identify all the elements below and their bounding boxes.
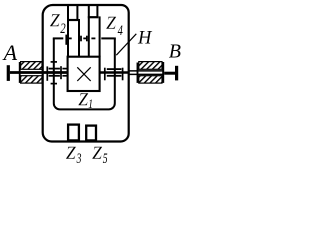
shaft B stub [164,72,175,75]
svg-text:z: z [105,5,117,35]
motor cross diagonal 1 [77,67,90,81]
gear z4 left support line [88,5,90,57]
gear z2 rectangle right edge [76,5,78,20]
left bearing lower hatched block [21,76,42,83]
left coupling bar 2 [60,66,62,79]
shaft A line [10,71,68,74]
hollow shaft lower line [129,73,164,75]
svg-text:z: z [91,135,103,165]
shaft B end bar [175,66,178,81]
svg-text:1: 1 [88,98,93,112]
central motor box [68,57,100,91]
svg-text:2: 2 [60,21,66,37]
gear z2 mesh line down to motor box [78,19,80,57]
short mesh bar left of z4 [86,36,88,42]
gear z2 bottom bar [67,19,78,21]
short mesh bar right of z2 [80,36,82,42]
fixed gear z5 block [86,126,96,141]
motor cross diagonal 2 [77,67,90,81]
svg-text:4: 4 [118,23,124,39]
svg-text:B: B [169,41,181,63]
planet mesh bar left of z2 [65,35,67,45]
gear case (outer rounded housing) [43,5,129,142]
left coupling upper plate [49,68,60,70]
svg-text:H: H [137,28,153,48]
gear z4 rectangle right edge [96,5,98,17]
hollow shaft upper line [129,70,164,72]
right bearing inner cap bar [137,63,139,83]
svg-text:z: z [49,3,61,33]
carrier top edge right segment (planet axis solid) [101,37,116,39]
right shaft solid segment [100,71,129,74]
svg-text:3: 3 [76,151,81,167]
right bearing lower hatched block [139,76,162,83]
gear z2 left support line [67,5,69,57]
carrier line top cap [51,61,57,63]
svg-text:5: 5 [103,151,108,167]
left coupling lower plate [49,75,60,77]
shaft A end bar [7,65,10,81]
svg-text:z: z [65,135,77,165]
left coupling bar 1 [46,66,48,80]
left bearing outer cap bar [19,62,21,83]
leader line to H [116,34,136,55]
planet axis dash 2 [83,37,86,39]
right coupling bar 2 [122,68,124,81]
right coupling upper plate [107,68,122,70]
svg-text:A: A [2,40,18,65]
right bearing upper hatched block [139,62,162,70]
gear z4 mesh line down to motor box [99,16,101,56]
carrier H frame (inner rounded rect) [54,38,115,109]
hub plate lower right of bar2 [62,75,67,77]
gear z4 bottom bar [88,16,99,18]
left bearing upper hatched block [21,62,42,70]
fixed gear z3 block [68,125,79,141]
hub plate upper right of bar2 [62,68,67,70]
planet axis dash 3 [91,37,95,39]
right bearing outer cap bar [162,62,164,83]
planet axis dash 1 [69,37,72,39]
right coupling bar 1 [104,68,106,81]
right coupling lower plate [107,75,122,77]
carrier line bottom cap [51,83,57,85]
carrier top edge left segment (planet axis solid) [53,37,64,39]
